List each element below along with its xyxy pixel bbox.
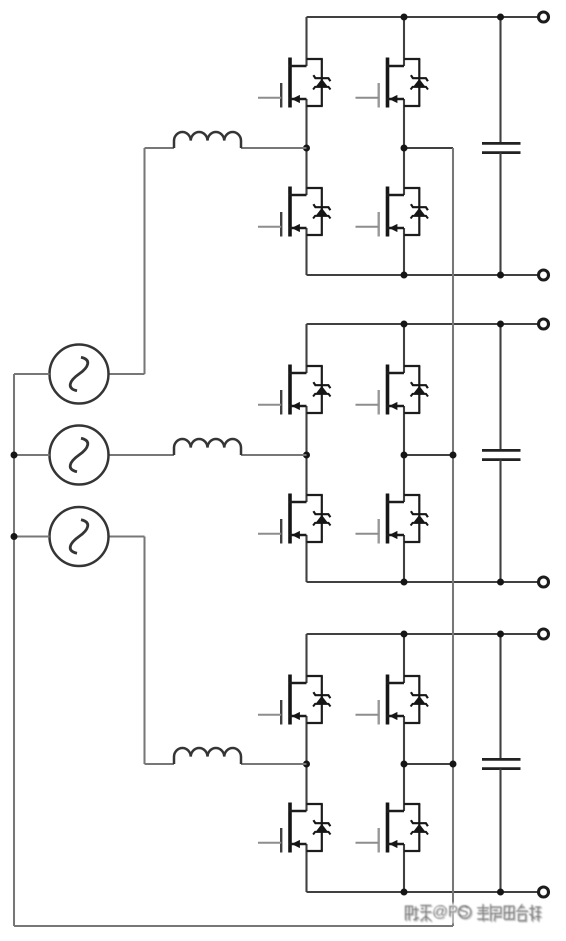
wire	[145, 147, 175, 149]
wire	[404, 763, 453, 765]
wire	[499, 153, 501, 275]
ac source V2	[50, 426, 109, 485]
wire left bus	[13, 374, 15, 926]
wire	[305, 324, 307, 373]
capacitor C3	[482, 759, 521, 768]
wire	[109, 535, 145, 537]
wire	[305, 17, 307, 66]
wire bottom rail bridge B	[307, 581, 538, 583]
node	[401, 631, 408, 638]
ac source V3	[50, 507, 109, 566]
inductor L1	[174, 132, 241, 148]
capacitor C2	[482, 450, 521, 459]
wire	[305, 844, 307, 892]
terminal DC+ bridge A	[539, 12, 549, 22]
node	[401, 452, 408, 459]
wire	[145, 763, 175, 765]
wire	[241, 763, 307, 765]
transistor Q12 (MOSFET with body diode)	[356, 803, 429, 853]
wire	[499, 460, 501, 582]
transistor Q1 (MOSFET with body diode)	[258, 58, 331, 108]
node	[497, 14, 504, 21]
wire	[109, 373, 145, 375]
wire	[499, 17, 501, 143]
node	[11, 533, 18, 540]
node	[401, 321, 408, 328]
transistor Q4 (MOSFET with body diode)	[356, 187, 429, 237]
transistor Q9 (MOSFET with body diode)	[258, 675, 331, 725]
wire neutral riser	[452, 148, 454, 926]
terminal DC- bridge B	[539, 577, 549, 587]
transistor Q8 (MOSFET with body diode)	[356, 494, 429, 544]
wire	[403, 99, 405, 195]
wire	[403, 716, 405, 811]
wire	[305, 634, 307, 683]
wire	[109, 454, 175, 456]
node	[401, 761, 408, 768]
node	[11, 452, 18, 459]
wire	[14, 535, 50, 537]
terminal DC- bridge A	[539, 270, 549, 280]
inductor L2	[174, 439, 241, 455]
node	[303, 145, 310, 152]
node	[497, 631, 504, 638]
wire	[305, 228, 307, 275]
node	[303, 452, 310, 459]
terminal DC- bridge C	[539, 887, 549, 897]
wire top rail bridge C	[307, 633, 538, 635]
node	[401, 889, 408, 896]
transistor Q11 (MOSFET with body diode)	[258, 803, 331, 853]
node	[450, 761, 457, 768]
wire	[305, 716, 307, 811]
wire	[403, 406, 405, 502]
wire	[305, 406, 307, 502]
wire	[499, 634, 501, 759]
wire	[241, 454, 307, 456]
transistor Q3 (MOSFET with body diode)	[258, 187, 331, 237]
wire	[499, 324, 501, 450]
transistor Q7 (MOSFET with body diode)	[258, 494, 331, 544]
transistor Q6 (MOSFET with body diode)	[356, 365, 429, 415]
transistor Q2 (MOSFET with body diode)	[356, 58, 429, 108]
node	[401, 145, 408, 152]
wire	[305, 535, 307, 582]
node	[497, 272, 504, 279]
transistor Q5 (MOSFET with body diode)	[258, 365, 331, 415]
terminal DC+ bridge B	[539, 319, 549, 329]
wire	[403, 17, 405, 66]
wire	[403, 535, 405, 582]
capacitor C1	[482, 143, 521, 152]
node	[497, 321, 504, 328]
wire bottom rail bridge A	[307, 274, 538, 276]
wire	[14, 373, 50, 375]
wire top rail bridge A	[307, 16, 538, 18]
wire	[143, 148, 145, 374]
node	[401, 579, 408, 586]
wire top rail bridge B	[307, 323, 538, 325]
wire	[499, 769, 501, 892]
node	[497, 579, 504, 586]
node	[450, 452, 457, 459]
node	[401, 14, 408, 21]
wire	[403, 324, 405, 373]
ac source V1	[50, 345, 109, 404]
node	[497, 889, 504, 896]
wire	[403, 228, 405, 275]
wire	[404, 454, 453, 456]
terminal DC+ bridge C	[539, 629, 549, 639]
wire	[143, 537, 145, 765]
wire	[403, 634, 405, 683]
node	[303, 761, 310, 768]
node	[401, 272, 408, 279]
wire	[404, 147, 453, 149]
transistor Q10 (MOSFET with body diode)	[356, 675, 429, 725]
inductor L3	[174, 748, 241, 764]
wire	[14, 454, 50, 456]
wire	[241, 147, 307, 149]
wire	[403, 844, 405, 892]
wire	[305, 99, 307, 195]
wire bottom rail bridge C	[307, 891, 538, 893]
wire bottom return	[14, 925, 453, 927]
